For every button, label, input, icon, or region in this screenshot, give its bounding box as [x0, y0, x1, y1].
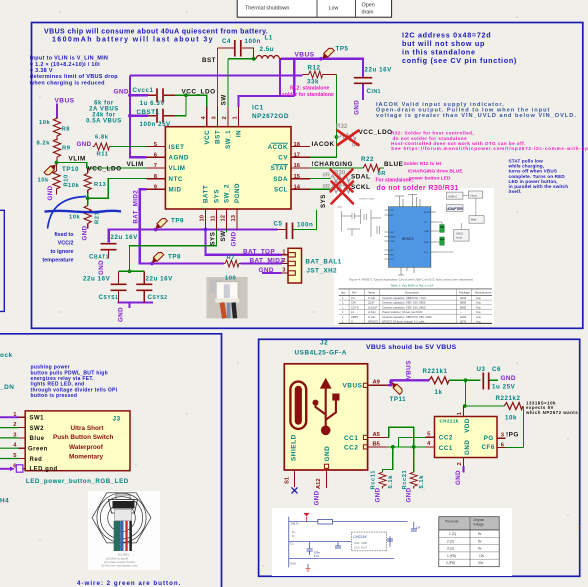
- svg-text:CSYS2: CSYS2: [148, 294, 168, 301]
- svg-text:GND: GND: [98, 260, 105, 275]
- svg-text:100: 100: [225, 276, 236, 282]
- capacitor Cvcc1: [157, 88, 163, 102]
- table in inset: [439, 517, 499, 530]
- svg-text:100n 25V: 100n 25V: [140, 121, 172, 128]
- svg-text:VBUS should be 5V VBUS: VBUS should be 5V VBUS: [366, 344, 457, 351]
- svg-text:(2) All over momentary only: (2) All over momentary only: [101, 564, 138, 568]
- svg-text:D-: D-: [292, 534, 295, 538]
- svg-text:IC1: IC1: [252, 105, 264, 112]
- svg-text:5v: 5v: [478, 532, 482, 536]
- svg-text:Any: Any: [476, 310, 481, 314]
- wire VLIM net: [57, 163, 147, 169]
- svg-text:CBAT1: CBAT1: [89, 253, 109, 260]
- svg-text:solder for standalone: solder for standalone: [282, 92, 334, 98]
- connector J3 body: [25, 411, 130, 471]
- svg-text:VBUS: VBUS: [343, 383, 363, 390]
- svg-text:Any: Any: [476, 301, 481, 305]
- capacitor Csys2: [136, 284, 152, 290]
- svg-text:CC2 OUT: CC2 OUT: [354, 546, 367, 550]
- svg-text:S1: S1: [284, 476, 290, 484]
- svg-text:SDA: SDA: [424, 241, 429, 244]
- wire ISET pin5: [111, 146, 147, 148]
- svg-text:BLUE: BLUE: [384, 161, 404, 168]
- resistor R11: [94, 143, 109, 150]
- sheet border: bottom-left section: [0, 334, 222, 587]
- svg-text:SW: SW: [220, 94, 227, 105]
- svg-text:NTC: NTC: [169, 176, 183, 183]
- svg-text:BST: BST: [215, 130, 222, 144]
- svg-text:SW1: SW1: [30, 416, 45, 422]
- svg-text:VCC: VCC: [204, 130, 211, 145]
- lead R10: [56, 163, 58, 195]
- svg-text:TP8: TP8: [168, 254, 181, 261]
- svg-text:2x22uF: 2x22uF: [368, 305, 378, 309]
- svg-text:voltage is greater than VIN_UV: voltage is greater than VIN_UVLD and bel…: [376, 113, 577, 119]
- svg-text:14: 14: [294, 185, 301, 191]
- capacitor C5: [287, 223, 293, 240]
- svg-text:Description: Description: [405, 290, 419, 294]
- lead Cvcc1 right: [164, 94, 175, 96]
- svg-text:!CHARGING: !CHARGING: [312, 161, 353, 168]
- resistor R9: [53, 139, 60, 157]
- wire BAT_TOP drop: [206, 230, 282, 255]
- photo: metal push button: [88, 491, 160, 570]
- wire SYS pin11 to Csys: [119, 230, 217, 272]
- svg-text:NP2672: NP2672: [368, 319, 379, 323]
- svg-text:GND: GND: [313, 490, 320, 505]
- svg-text:VCC/2: VCC/2: [58, 241, 74, 247]
- svg-text:Cvcc1: Cvcc1: [133, 87, 154, 94]
- svg-text:10k: 10k: [68, 183, 80, 189]
- wire VBUS drop to R12 line (x=280): [279, 59, 281, 96]
- svg-text:4-wire: 2 green are button.: 4-wire: 2 green are button.: [77, 580, 181, 587]
- svg-text:20v: 20v: [478, 561, 484, 565]
- wire J3 pin2: [0, 427, 19, 429]
- svg-text:15: 15: [294, 174, 301, 180]
- wire GND rail to AGND pin6: [130, 76, 147, 158]
- svg-text:host: host: [457, 236, 463, 240]
- photo: JST battery connector: [207, 277, 248, 318]
- IC1 pin stubs: [147, 107, 310, 230]
- svg-text:SDA: SDA: [273, 176, 288, 183]
- svg-text:GND: GND: [324, 446, 331, 462]
- svg-text:2: 2: [222, 116, 228, 119]
- blue IC block: [389, 207, 431, 268]
- svg-text:Push Button Switch: Push Button Switch: [53, 434, 113, 441]
- wire J3 pin1: [0, 416, 19, 418]
- svg-text:1600mAh battery will last abou: 1600mAh battery will last about 3y: [52, 36, 214, 43]
- svg-text:GND: GND: [259, 267, 274, 274]
- lead C5 left/right: [278, 229, 294, 231]
- svg-text:CH221K: CH221K: [353, 535, 367, 539]
- svg-text:10k: 10k: [505, 414, 517, 421]
- lead R22 right: [379, 167, 382, 169]
- svg-text:5.1k: 5.1k: [419, 475, 425, 489]
- svg-text:STAT: STAT: [424, 230, 430, 233]
- sheet border: left cut-off fragment box: [0, 210, 4, 311]
- svg-text:L1: L1: [265, 35, 273, 42]
- svg-text:2.2uH: 2.2uH: [368, 310, 375, 314]
- svg-text:SDAL: SDAL: [351, 173, 370, 180]
- wire SCL pin14: [310, 188, 331, 190]
- svg-text:7: 7: [154, 163, 157, 169]
- svg-text:GND: GND: [464, 440, 471, 455]
- sheet border: top section: [32, 23, 583, 329]
- wire GND to connector pin3: [262, 272, 282, 274]
- IC1 NP2672GD body: [165, 127, 291, 209]
- svg-text:22u 16V: 22u 16V: [146, 275, 174, 282]
- svg-text:J2: J2: [320, 339, 328, 346]
- lead CBAT1 bottom: [108, 250, 110, 259]
- wire SW node: [228, 59, 254, 107]
- wire R21 top lead: [87, 198, 89, 205]
- svg-text:H4: H4: [0, 498, 9, 505]
- svg-text:Pin mode: Pin mode: [445, 520, 459, 524]
- svg-text:U3: U3: [477, 366, 486, 373]
- testpoint TP8: [150, 251, 164, 265]
- svg-text:PGND: PGND: [234, 183, 241, 203]
- svg-text:GND: GND: [47, 185, 54, 200]
- svg-text:VBUS: VBUS: [295, 51, 315, 58]
- lead R21 bottom: [87, 224, 89, 229]
- svg-text:22u 16V: 22u 16V: [365, 67, 393, 74]
- svg-text:CC: CC: [290, 541, 294, 545]
- svg-text:Value: Value: [368, 290, 375, 294]
- svg-text:R11: R11: [97, 152, 109, 158]
- svg-text:CSYS: CSYS: [351, 305, 359, 309]
- svg-text:TP9: TP9: [171, 218, 184, 225]
- svg-text:temperature: temperature: [42, 258, 73, 264]
- svg-text:USB-C: USB-C: [448, 195, 458, 199]
- capacitor Csys1: [111, 284, 127, 290]
- svg-text:1uF: 1uF: [416, 526, 421, 530]
- purple wires: [109, 59, 363, 308]
- svg-text:Green: Green: [28, 447, 48, 453]
- svg-text:Voltage: Voltage: [473, 523, 484, 527]
- resistor R8: [53, 118, 60, 136]
- svg-text:L1: L1: [351, 310, 355, 314]
- USB trident glyph: [316, 388, 336, 427]
- svg-text:= 3.38 V: = 3.38 V: [30, 68, 53, 74]
- svg-text:BATT: BATT: [203, 185, 210, 203]
- svg-text:1u 6.3V: 1u 6.3V: [140, 100, 166, 107]
- resistor R21: [84, 206, 91, 224]
- resistor Rcc21: [410, 472, 417, 486]
- IC1 pin names: [169, 144, 189, 194]
- svg-text:B5: B5: [373, 441, 381, 447]
- wire Csys GND: [118, 303, 154, 309]
- svg-text:BAT_BAL1: BAT_BAL1: [306, 259, 342, 266]
- svg-text:16: 16: [294, 163, 301, 169]
- svg-text:PG: PG: [484, 435, 494, 442]
- wires VDD node: [449, 380, 523, 447]
- capacitor C4: [235, 40, 241, 57]
- svg-text:1u 25V: 1u 25V: [492, 383, 516, 390]
- svg-text:R9: R9: [62, 146, 71, 152]
- svg-text:1 (C): 1 (C): [449, 532, 456, 536]
- lead R11: [93, 146, 111, 148]
- svg-text:R7: R7: [227, 255, 236, 261]
- svg-text:2 (C): 2 (C): [447, 539, 454, 543]
- svg-text:CV: CV: [424, 222, 428, 224]
- svg-text:R8: R8: [62, 127, 71, 133]
- capacitor CBST1: [157, 109, 163, 123]
- svg-text:Red: Red: [30, 457, 43, 463]
- svg-text:GND: GND: [501, 375, 516, 382]
- wire VBUS from L1 to CIN1: [281, 59, 363, 77]
- svg-text:VLIM: VLIM: [69, 155, 86, 162]
- wire J3 pin5: [0, 458, 19, 460]
- svg-text:MID: MID: [390, 255, 394, 257]
- CH221K pin2 gnd: [462, 466, 464, 473]
- svg-text:ock: ock: [0, 352, 13, 359]
- svg-text:CC1: CC1: [439, 445, 453, 452]
- svg-text:5.1k: 5.1k: [388, 475, 394, 489]
- svg-text:TP5: TP5: [336, 46, 349, 53]
- svg-text:BAT_TOP: BAT_TOP: [243, 248, 275, 255]
- svg-text:2: 2: [457, 462, 463, 465]
- svg-text:For standalone,: For standalone,: [376, 178, 414, 184]
- resistor R30 (DNP grey): [331, 175, 350, 182]
- wire CIN1 to GND: [362, 83, 364, 100]
- svg-text:STAT: STAT: [271, 165, 288, 172]
- svg-text:TP11: TP11: [390, 396, 407, 403]
- svg-text:11: 11: [211, 215, 217, 222]
- svg-text:Ref: Ref: [352, 290, 357, 294]
- svg-text:Manufacturer: Manufacturer: [475, 290, 492, 294]
- svg-text:Table 1: Key BOM of Fig. x-x-0: Table 1: Key BOM of Fig. x-x-04: [391, 284, 434, 288]
- svg-text:18: 18: [294, 142, 301, 148]
- resistor R221k2: [504, 403, 523, 410]
- svg-text:10: 10: [200, 215, 206, 221]
- svg-text:10k: 10k: [69, 215, 81, 221]
- svg-text:power button LED: power button LED: [409, 176, 451, 182]
- svg-text:R12: standalone: R12: standalone: [290, 86, 330, 92]
- svg-text:BAT_MID2: BAT_MID2: [250, 257, 285, 264]
- svg-text:C5: C5: [274, 220, 283, 227]
- svg-text:Blue: Blue: [30, 436, 45, 442]
- svg-text:SYS: SYS: [320, 194, 327, 208]
- svg-text:CC1 VDD: CC1 VDD: [354, 541, 367, 545]
- svg-text:SW: SW: [220, 231, 227, 242]
- svg-text:VBUS chip will consume about 4: VBUS chip will consume about 40uA quiesc…: [44, 28, 268, 35]
- svg-text:QFN: QFN: [460, 319, 466, 323]
- right grey boxes: [446, 191, 484, 241]
- svg-text:ISET: ISET: [390, 232, 396, 234]
- svg-text:SYS: SYS: [210, 232, 217, 246]
- resistor R13: [84, 173, 91, 190]
- resistor Rcc11: [379, 472, 386, 486]
- svg-text:CC2: CC2: [439, 435, 453, 442]
- svg-text:_DN: _DN: [0, 384, 14, 391]
- svg-text:R21: R21: [95, 211, 101, 224]
- svg-text:See https://forum.monolithicpo: See https://forum.monolithicpower.com/t/…: [391, 146, 588, 151]
- lead Csys1/2 top and bottom: [119, 271, 145, 302]
- svg-text:CC2: CC2: [344, 444, 358, 451]
- svg-text:6.8k: 6.8k: [95, 135, 109, 141]
- svg-text:0.1uF: 0.1uF: [368, 296, 375, 300]
- svg-text:VIN: VIN: [337, 205, 342, 209]
- IC1 pin numbers: [154, 142, 158, 191]
- J2 VBUS wire + TP11: [388, 380, 429, 385]
- svg-text:TP10: TP10: [62, 166, 79, 173]
- wire J3 pin3: [0, 437, 19, 439]
- svg-text:VCC_LDO: VCC_LDO: [182, 88, 216, 95]
- svg-text:GND: GND: [374, 487, 381, 502]
- svg-text:Rcc21: Rcc21: [402, 469, 408, 489]
- svg-text:CIN: CIN: [351, 301, 356, 305]
- IC CH221K: [435, 417, 498, 458]
- svg-text:CIN1: CIN1: [367, 88, 381, 95]
- lead R7: [224, 263, 241, 265]
- svg-text:NTC: NTC: [390, 250, 395, 252]
- svg-text:12: 12: [221, 215, 227, 221]
- svg-text:Original: Original: [473, 518, 484, 522]
- connector J2 body: [284, 364, 367, 470]
- svg-text:GND: GND: [231, 231, 238, 246]
- svg-text:Open: Open: [362, 3, 375, 9]
- J3 description fields: [53, 425, 113, 461]
- capacitor C6: [483, 373, 488, 390]
- svg-text:VBUS: VBUS: [55, 98, 75, 105]
- testpoint TP9: [154, 217, 168, 231]
- svg-text:ISET: ISET: [169, 144, 185, 151]
- svg-text:MID: MID: [169, 187, 182, 194]
- svg-text:SYS: SYS: [214, 189, 221, 203]
- svg-text:Any: Any: [476, 305, 481, 309]
- svg-text:Ceramic capacitor, X5R/X7R, >=: Ceramic capacitor, X5R/X7R, >=6V: [382, 296, 426, 300]
- svg-text:Package: Package: [459, 290, 470, 294]
- wire Cvcc1 left lead: [130, 94, 148, 96]
- svg-text:VBUS: VBUS: [291, 522, 299, 526]
- svg-text:Low: Low: [329, 6, 339, 12]
- svg-text:0402: 0402: [460, 296, 467, 300]
- svg-text:CF6: CF6: [482, 444, 495, 451]
- USB-C receptacle glyph: [290, 382, 306, 429]
- svg-text:CSYS1: CSYS1: [99, 294, 119, 301]
- lead Cvcc1 left red part: [148, 94, 156, 96]
- svg-text:1 (PD): 1 (PD): [447, 554, 456, 558]
- wire BATT line TP9: [109, 230, 278, 243]
- svg-text:fixed to: fixed to: [54, 232, 74, 238]
- testpoint TP5: [321, 47, 335, 61]
- svg-text:AGND: AGND: [390, 236, 397, 239]
- wire SDA pin15: [310, 178, 331, 180]
- svg-text:system load: system load: [359, 197, 374, 201]
- svg-text:SW_1: SW_1: [225, 130, 232, 149]
- svg-text:Power inductor, 3A sat, low DC: Power inductor, 3A sat, low DCR: [382, 310, 422, 314]
- svg-text:100n: 100n: [297, 221, 313, 228]
- connector BAT_BAL1 JST_XH2: [288, 248, 302, 283]
- svg-text:Waterproof: Waterproof: [69, 444, 104, 451]
- table fragment top (Thermal shutdown row): [237, 0, 391, 17]
- left small circuit scribbles: [342, 209, 382, 237]
- svg-text:R221k2: R221k2: [496, 395, 521, 402]
- svg-text:C6: C6: [492, 366, 501, 373]
- lead C4 left to BST: [218, 47, 234, 49]
- svg-text:8.2k: 8.2k: [37, 141, 51, 147]
- svg-text:VLIM: VLIM: [127, 161, 144, 168]
- svg-text:CBST1: CBST1: [137, 109, 160, 116]
- svg-text:22u 16V: 22u 16V: [83, 275, 111, 282]
- svg-text:itself.: itself.: [509, 189, 522, 194]
- wire CBST1 left lead: [130, 115, 148, 117]
- lead R8 R9 chain: [56, 117, 58, 163]
- svg-text:--: --: [460, 310, 462, 314]
- svg-text:1k: 1k: [435, 389, 443, 396]
- svg-text:SCL: SCL: [274, 187, 288, 194]
- capacitor CIN1: [354, 78, 372, 84]
- svg-text:CV: CV: [278, 155, 288, 162]
- svg-text:Ceramic capacitor, X5R, 16V, 0: Ceramic capacitor, X5R, 16V, 0805: [382, 305, 426, 309]
- sheet border: bottom-right section (J2): [259, 339, 580, 576]
- lead CBST1: [148, 115, 175, 117]
- svg-text:CH221k: CH221k: [440, 419, 459, 424]
- svg-text:LED gnd: LED gnd: [30, 466, 58, 472]
- junction dots (green wires): [55, 57, 339, 273]
- svg-text:VDD: VDD: [464, 418, 471, 433]
- svg-text:R13: R13: [94, 182, 107, 188]
- svg-text:GND: GND: [77, 141, 92, 148]
- wire NTC net: [88, 179, 147, 199]
- resistor R7: [225, 260, 239, 267]
- svg-text:GND: GND: [114, 89, 129, 96]
- svg-text:VCC_LDO: VCC_LDO: [359, 129, 393, 136]
- svg-text:when charging is reduced: when charging is reduced: [29, 80, 105, 86]
- svg-text:NP2672 5A buck charger 1-2 cel: NP2672 5A buck charger 1-2 cells,: [382, 319, 425, 323]
- table: [339, 289, 492, 324]
- svg-text:Momentary: Momentary: [69, 454, 104, 461]
- svg-text:C4: C4: [222, 38, 231, 45]
- svg-text:GND: GND: [290, 562, 296, 566]
- lead CIN1 top: [362, 76, 364, 78]
- svg-text:J3: J3: [113, 416, 121, 423]
- svg-text:Figure 4: NP2672 Typical Appli: Figure 4: NP2672 Typical Application Cir…: [349, 278, 473, 282]
- svg-text:R221k1: R221k1: [423, 368, 448, 375]
- svg-text:VCC: VCC: [390, 210, 395, 212]
- wire C5 to SYS: [293, 210, 317, 230]
- svg-text:button is pressed: button is pressed: [31, 393, 78, 399]
- VBUS stub over R8: [56, 104, 58, 119]
- svg-text:NP2672: NP2672: [402, 237, 414, 241]
- svg-text:C4: C4: [351, 296, 355, 300]
- svg-text:Batt: Batt: [471, 218, 477, 222]
- wire BAT_MID2 after R7 to connector: [241, 262, 282, 264]
- svg-text:4.7u: 4.7u: [314, 554, 320, 558]
- blue hand-drawn marks: [48, 197, 87, 229]
- svg-text:0805: 0805: [460, 305, 467, 309]
- red X marks (DNP): [331, 131, 359, 204]
- inset image: NP2672 datasheet application circuit: [334, 188, 494, 325]
- svg-text:Host: Host: [471, 193, 477, 197]
- svg-text:do not solder R30/R31: do not solder R30/R31: [377, 185, 459, 192]
- svg-text:Ultra Short: Ultra Short: [71, 425, 105, 432]
- svg-text:VBUS: VBUS: [405, 360, 412, 380]
- green wires: [57, 48, 385, 271]
- svg-text:R22: R22: [361, 156, 374, 163]
- svg-text:to ignore: to ignore: [50, 249, 73, 255]
- wire VBUS drop to IN line (x=294.3): [293, 59, 295, 96]
- svg-text:ADAPTER: ADAPTER: [447, 207, 463, 211]
- svg-text:Qty: Qty: [341, 290, 346, 294]
- svg-text:0805: 0805: [460, 301, 467, 305]
- svg-text:Any: Any: [476, 296, 481, 300]
- resistor R10: [53, 171, 60, 189]
- wire CHARGING pin16 to R22: [310, 167, 384, 169]
- svg-text:12v: 12v: [479, 554, 485, 558]
- svg-text:13: 13: [231, 214, 237, 221]
- svg-text:10k: 10k: [39, 120, 51, 126]
